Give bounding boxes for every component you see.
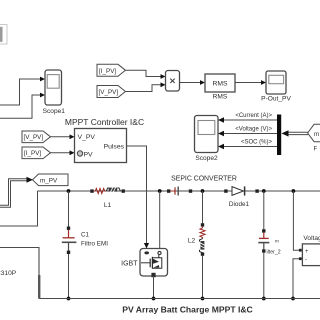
wire to voltage plus bbox=[293, 191, 299, 250]
svg-text:[V_PV]: [V_PV] bbox=[99, 89, 119, 96]
bus wire from battery tag bbox=[286, 132, 308, 134]
subsystem MPPT controller bbox=[75, 129, 127, 163]
wire I_PV to product bbox=[125, 70, 162, 76]
arrowhead into bus selector bbox=[282, 130, 289, 136]
svg-text:SEPIC CONVERTER: SEPIC CONVERTER bbox=[171, 175, 237, 182]
node filter cap top bbox=[262, 189, 266, 193]
svg-text:F: F bbox=[314, 147, 318, 153]
svg-text:PV: PV bbox=[84, 152, 94, 159]
svg-text:-: - bbox=[305, 257, 307, 263]
svg-text:[I_PV]: [I_PV] bbox=[24, 150, 41, 157]
arrowhead P-Out_PV in bbox=[261, 80, 266, 85]
transistor IGBT bbox=[121, 249, 167, 278]
node voltage minus bottom bbox=[291, 297, 295, 301]
arrowhead product in2 bbox=[161, 82, 166, 87]
wire bottom rail bbox=[39, 298, 320, 300]
signal SOC wire bbox=[224, 146, 277, 148]
scope Scope1 bbox=[43, 70, 66, 115]
svg-text:MPPT Controller I&C: MPPT Controller I&C bbox=[65, 117, 144, 127]
from tag [I_PV] mid bbox=[22, 147, 51, 159]
wire into Scope1 input 2 bbox=[0, 95, 42, 118]
inductor L2 bbox=[188, 223, 205, 256]
svg-text:[V_PV]: [V_PV] bbox=[24, 134, 44, 141]
svg-text:C310P: C310P bbox=[0, 270, 17, 277]
wire L2 branch upper bbox=[202, 191, 204, 223]
svg-text:Filtro EMI: Filtro EMI bbox=[81, 241, 108, 248]
wire V_PV to product bbox=[125, 85, 162, 92]
arrowhead product in1 bbox=[161, 74, 166, 79]
arrowhead into Scope2 current bbox=[218, 117, 224, 123]
svg-text:Voltage: Voltage bbox=[303, 235, 320, 242]
svg-text:Scope1: Scope1 bbox=[43, 108, 66, 115]
wire arrowhead Scope1 input 1 bbox=[40, 77, 45, 82]
svg-text:V_PV: V_PV bbox=[78, 134, 96, 141]
svg-text:PV Array Batt Charge MPPT I&C: PV Array Batt Charge MPPT I&C bbox=[122, 305, 253, 315]
wire C1 branch upper bbox=[68, 191, 70, 227]
wire Pulses to IGBT gate bbox=[127, 146, 147, 245]
block RMS bbox=[205, 74, 235, 101]
from tag [V_PV] top bbox=[97, 86, 125, 98]
port voltage plus bbox=[299, 249, 302, 252]
wire PV plus to rail bbox=[0, 191, 38, 226]
node C1 top bbox=[67, 189, 71, 193]
node L2 bottom bbox=[201, 297, 205, 301]
scope Scope2 bbox=[195, 116, 219, 163]
diode Diode1 bbox=[224, 186, 259, 208]
capacitor C1 bbox=[62, 227, 108, 255]
wire rail to IGBT collector bbox=[159, 191, 161, 249]
svg-text:RMS: RMS bbox=[212, 81, 228, 88]
node IGBT collector rail bbox=[158, 189, 162, 193]
goto tag m_PV bbox=[33, 174, 69, 186]
svg-text:<SOC (%)>: <SOC (%)> bbox=[241, 140, 273, 146]
svg-text:C1: C1 bbox=[81, 232, 90, 239]
wire into Scope1 input 1 bbox=[0, 79, 42, 105]
svg-text:L1: L1 bbox=[104, 202, 112, 209]
capacitor filter_2 bbox=[258, 229, 280, 255]
svg-text:Scope2: Scope2 bbox=[195, 155, 218, 162]
scope P-Out_PV bbox=[261, 71, 291, 103]
node voltage branch top bbox=[292, 189, 296, 193]
svg-text:RMS: RMS bbox=[213, 94, 228, 101]
wire filter cap upper bbox=[263, 191, 265, 229]
svg-text:<Voltage (V)>: <Voltage (V)> bbox=[235, 127, 272, 133]
arrowhead controller in1 bbox=[70, 134, 75, 139]
svg-text:[I_PV]: [I_PV] bbox=[99, 68, 116, 75]
wire filter cap lower bbox=[263, 253, 265, 299]
inductor L1 bbox=[90, 187, 125, 209]
from tag [I_PV] top bbox=[97, 64, 125, 76]
arrowhead IGBT gate bbox=[144, 243, 149, 249]
bus wire PV measurements bbox=[0, 180, 27, 207]
wire arrowhead Scope1 input 2 bbox=[40, 93, 45, 98]
svg-text:m: m bbox=[314, 131, 319, 138]
port voltage minus bbox=[299, 257, 302, 260]
signal Voltage wire bbox=[224, 133, 277, 135]
wire V_PV to controller bbox=[51, 136, 71, 138]
wire voltage minus to rail bbox=[293, 259, 299, 299]
from tag [V_PV] mid bbox=[22, 131, 51, 143]
svg-text:+: + bbox=[305, 249, 309, 255]
wire RMS to P-Out_PV bbox=[235, 82, 263, 84]
arrowhead into Scope2 voltage bbox=[218, 131, 224, 137]
capacitor C sepic bbox=[167, 187, 192, 196]
svg-text:Diode1: Diode1 bbox=[229, 201, 250, 208]
bus selector bar bbox=[277, 115, 281, 156]
wire product to RMS bbox=[180, 82, 202, 84]
from tag battery m (cropped) bbox=[308, 124, 320, 152]
arrowhead controller in2 bbox=[70, 150, 75, 155]
svg-text:<Current (A)>: <Current (A)> bbox=[235, 113, 272, 119]
svg-text:m_PV: m_PV bbox=[40, 177, 58, 184]
svg-text:Pulses: Pulses bbox=[104, 144, 125, 151]
voltmeter Voltage (cropped) bbox=[302, 235, 320, 266]
node IGBT emitter bottom bbox=[152, 297, 156, 301]
product block x bbox=[166, 71, 180, 92]
svg-text:ilter_2: ilter_2 bbox=[267, 250, 281, 256]
node filter cap bottom bbox=[262, 297, 266, 301]
wire top rail bbox=[38, 190, 320, 192]
node C1 bottom bbox=[67, 297, 71, 301]
wire IGBT emitter to rail bbox=[153, 276, 155, 299]
cropped block top-left bbox=[0, 25, 7, 45]
arrowhead RMS in bbox=[200, 80, 205, 85]
wire C1 branch lower bbox=[68, 254, 70, 299]
svg-text:L2: L2 bbox=[188, 238, 196, 245]
wire L2 branch lower bbox=[202, 256, 204, 299]
svg-text:P-Out_PV: P-Out_PV bbox=[261, 96, 291, 103]
pv array block C310P (cropped) bbox=[0, 248, 40, 299]
wire I_PV to controller bbox=[51, 152, 71, 154]
node L2 top bbox=[201, 189, 205, 193]
arrowhead into m_PV bbox=[27, 177, 34, 183]
signal Current wire bbox=[224, 119, 277, 121]
svg-text:IGBT: IGBT bbox=[121, 260, 138, 267]
svg-text:m: m bbox=[275, 239, 279, 244]
arrowhead into Scope2 SOC bbox=[218, 144, 224, 150]
